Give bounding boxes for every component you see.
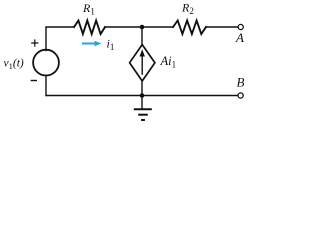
dependent current source diamond U1 — [130, 45, 155, 81]
voltage source v1 circle — [33, 50, 59, 76]
svg-text:B: B — [237, 75, 245, 90]
ground bar 3 — [141, 119, 145, 121]
ground bar 2 — [138, 114, 148, 116]
svg-text:Ai1: Ai1 — [160, 54, 177, 69]
ground stub — [141, 96, 143, 109]
wire R1 to node — [105, 26, 142, 28]
terminal A circle — [238, 24, 243, 29]
current arrow i1 (blue) — [82, 43, 96, 45]
wire source bottom to rail — [45, 75, 47, 95]
junction dot bottom node — [140, 93, 145, 98]
svg-text:R2: R2 — [181, 1, 194, 16]
wire diamond bottom to rail — [141, 81, 143, 96]
resistor R2 — [173, 21, 206, 35]
wire node to R2 — [142, 26, 173, 28]
minus sign — [31, 80, 37, 82]
svg-text:A: A — [235, 30, 244, 45]
resistor R1 — [74, 21, 105, 35]
plus sign — [31, 39, 38, 46]
svg-text:R1: R1 — [82, 1, 95, 16]
svg-text:v1(t): v1(t) — [4, 58, 24, 71]
ground bar 1 — [134, 108, 152, 110]
terminal B circle — [238, 93, 243, 98]
bottom wire rail — [46, 95, 238, 97]
junction dot top node — [140, 25, 145, 30]
wire node to diamond top — [141, 27, 143, 45]
svg-text:i1: i1 — [107, 37, 115, 52]
wire top-left vertical and horizontal to R1 — [46, 27, 74, 51]
wire R2 to terminal A — [206, 26, 238, 28]
arrow inside diamond — [141, 55, 143, 75]
